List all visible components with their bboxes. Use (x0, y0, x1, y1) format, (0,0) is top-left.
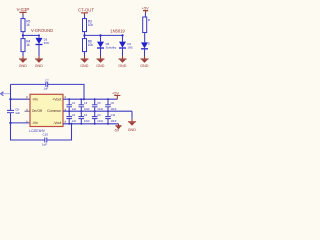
capacitor C1 (66, 98, 76, 112)
wire (100, 48, 102, 56)
wire +Vout rail (63, 98, 117, 100)
resistor R6 (83, 39, 94, 52)
wire top link (11, 84, 85, 99)
svg-text:C10: C10 (43, 132, 49, 136)
wire (84, 15, 86, 19)
svg-text:D2: D2 (148, 41, 150, 45)
svg-text:R2: R2 (148, 18, 150, 22)
port arrow input (1, 92, 4, 96)
wire (85, 34, 123, 36)
junction (9, 98, 11, 100)
svg-text:10k: 10k (88, 23, 94, 27)
svg-text:Schottky: Schottky (106, 46, 117, 50)
junction (99, 34, 101, 36)
capacitor C7 (43, 78, 49, 90)
wire (144, 33, 146, 43)
capacitor C5 (92, 98, 104, 112)
svg-text:1uF: 1uF (42, 143, 47, 147)
svg-text:10nF: 10nF (97, 119, 103, 123)
wire (144, 49, 146, 56)
svg-text:V-G3P: V-G3P (17, 7, 30, 12)
svg-text:3V9: 3V9 (44, 41, 50, 45)
ground (140, 56, 149, 68)
svg-text:GND: GND (118, 64, 127, 68)
junction (83, 98, 85, 100)
resistor R5 (21, 19, 31, 32)
junction (9, 122, 11, 124)
capacitor C2 (66, 111, 76, 125)
svg-text:C7: C7 (45, 78, 49, 82)
ground (80, 56, 89, 68)
DC-DC converter U1 (30, 94, 63, 126)
pin numbers (26, 96, 66, 123)
wire (84, 52, 86, 56)
svg-text:10k: 10k (88, 43, 94, 47)
junction (71, 123, 73, 125)
wire (22, 15, 24, 19)
ground output (128, 111, 137, 132)
wire -Vout rail (63, 123, 119, 125)
svg-text:1N5: 1N5 (127, 46, 133, 50)
resistor R2 (143, 17, 152, 33)
svg-text:10nF: 10nF (84, 119, 90, 123)
svg-text:-Vin: -Vin (32, 121, 38, 125)
svg-text:C2: C2 (72, 113, 76, 117)
power port +5V right column (142, 7, 149, 14)
wire (144, 13, 146, 17)
pin stub On/Off (25, 110, 31, 112)
svg-text:On/Off: On/Off (32, 109, 42, 113)
wire +Vin (11, 122, 31, 124)
capacitor C8 (7, 108, 20, 116)
svg-text:+Vout: +Vout (52, 97, 61, 101)
svg-text:+5V: +5V (142, 7, 149, 11)
capacitor C9 (92, 111, 104, 125)
svg-text:1uF: 1uF (72, 119, 77, 123)
svg-text:Common: Common (47, 109, 61, 113)
wire input rail (10, 84, 12, 110)
svg-text:10nF: 10nF (84, 107, 90, 111)
resistor R3 (83, 19, 94, 32)
junction (83, 34, 85, 36)
svg-text:GND: GND (128, 128, 137, 132)
power port V-G3P (17, 7, 30, 15)
ground (118, 56, 127, 68)
svg-text:+5V: +5V (112, 91, 119, 96)
power port -5V output (114, 124, 122, 133)
junction (121, 34, 123, 36)
svg-text:-Vout: -Vout (53, 121, 61, 125)
svg-text:GND: GND (19, 64, 28, 68)
svg-text:C6: C6 (111, 101, 115, 105)
svg-text:C9: C9 (97, 113, 101, 117)
svg-text:C3: C3 (84, 101, 88, 105)
wire (23, 34, 39, 36)
diode D2 (141, 41, 152, 48)
diode D5 (97, 35, 117, 49)
capacitor C6 (105, 98, 117, 112)
wire (22, 32, 24, 39)
svg-text:GND: GND (35, 64, 44, 68)
diode D3 (36, 35, 50, 45)
svg-text:1k: 1k (26, 23, 30, 27)
svg-text:1uF: 1uF (15, 111, 20, 115)
svg-text:GND: GND (96, 64, 105, 68)
capacitor C10 (42, 138, 47, 147)
svg-text:10nF: 10nF (97, 107, 103, 111)
svg-text:1k: 1k (26, 43, 30, 47)
svg-text:-5V: -5V (114, 128, 120, 132)
svg-text:GND: GND (80, 64, 89, 68)
capacitor C3 (79, 98, 91, 112)
svg-text:1N5819: 1N5819 (110, 29, 125, 34)
svg-text:V-GROUND: V-GROUND (31, 28, 53, 33)
wire (22, 52, 24, 56)
ground (19, 56, 28, 68)
capacitor C11 (105, 111, 117, 125)
svg-text:1uF: 1uF (43, 87, 48, 91)
svg-text:10nF: 10nF (111, 107, 117, 111)
power port CT-OUT (78, 8, 94, 16)
svg-text:C5: C5 (97, 101, 101, 105)
diode D4 (119, 35, 133, 49)
svg-text:10nF: 10nF (111, 119, 117, 123)
svg-text:GND: GND (140, 64, 149, 68)
wire Common rail (63, 110, 132, 112)
svg-text:C11: C11 (111, 113, 116, 117)
wire -Vin (11, 98, 31, 100)
junction (38, 34, 40, 36)
svg-text:CT-OUT: CT-OUT (78, 8, 94, 13)
power port +5V output (112, 91, 120, 100)
ground (96, 56, 105, 68)
svg-text:-Vin: -Vin (32, 97, 38, 101)
svg-text:1uF: 1uF (72, 107, 77, 111)
ground (35, 56, 44, 68)
wire input rail lower (11, 113, 72, 140)
junction (22, 34, 24, 36)
svg-text:C4: C4 (84, 113, 88, 117)
wire (122, 48, 124, 56)
resistor R4 (21, 39, 31, 52)
svg-text:C1: C1 (72, 101, 76, 105)
wire (84, 32, 86, 39)
wire (38, 45, 40, 57)
capacitor C4 (79, 111, 91, 125)
